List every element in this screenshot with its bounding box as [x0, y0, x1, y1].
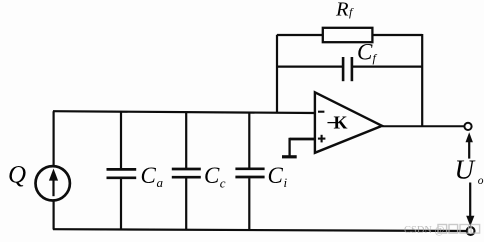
svg-text:C: C [268, 163, 284, 188]
arrow down (output) [466, 183, 474, 227]
capacitor Cf [343, 57, 352, 81]
ground [282, 138, 315, 157]
wire feedback left vertical [276, 35, 278, 112]
svg-text:c: c [220, 176, 226, 191]
wire Rf right [372, 34, 422, 36]
svg-text:C: C [204, 163, 220, 188]
label Q [8, 162, 26, 189]
label Ca [141, 163, 164, 190]
svg-text:C: C [357, 40, 373, 65]
svg-text:C: C [141, 163, 157, 188]
capacitor Ci [235, 113, 264, 231]
label Cf [357, 40, 378, 65]
wire op-amp output [382, 125, 465, 127]
capacitor Cc [172, 113, 201, 230]
wire Cf right [353, 65, 422, 67]
svg-text:U: U [455, 155, 476, 185]
wire top rail (input node) [53, 111, 315, 113]
op-amp -K [315, 92, 382, 153]
svg-text:i: i [284, 175, 288, 190]
output terminal bottom [467, 227, 475, 235]
svg-text:K: K [334, 112, 348, 132]
resistor Rf [323, 28, 373, 42]
wire Rf left [277, 34, 323, 36]
label Rf [335, 0, 354, 21]
arrow up (output) [466, 132, 473, 158]
label Uo [455, 155, 484, 187]
svg-text:Q: Q [8, 162, 26, 189]
svg-text:R: R [335, 0, 349, 21]
label Ci [268, 163, 288, 190]
label Cc [204, 163, 226, 191]
wire left rail [52, 111, 54, 229]
svg-text:a: a [157, 175, 164, 190]
wire feedback right vertical [421, 34, 423, 126]
output terminal top [464, 123, 471, 130]
watermark [404, 225, 480, 237]
svg-text:o: o [478, 175, 484, 187]
wire Cf left [277, 65, 342, 67]
capacitor Ca [107, 112, 137, 230]
wire bottom rail (ground node) [53, 229, 467, 231]
charge source Q [36, 166, 70, 200]
